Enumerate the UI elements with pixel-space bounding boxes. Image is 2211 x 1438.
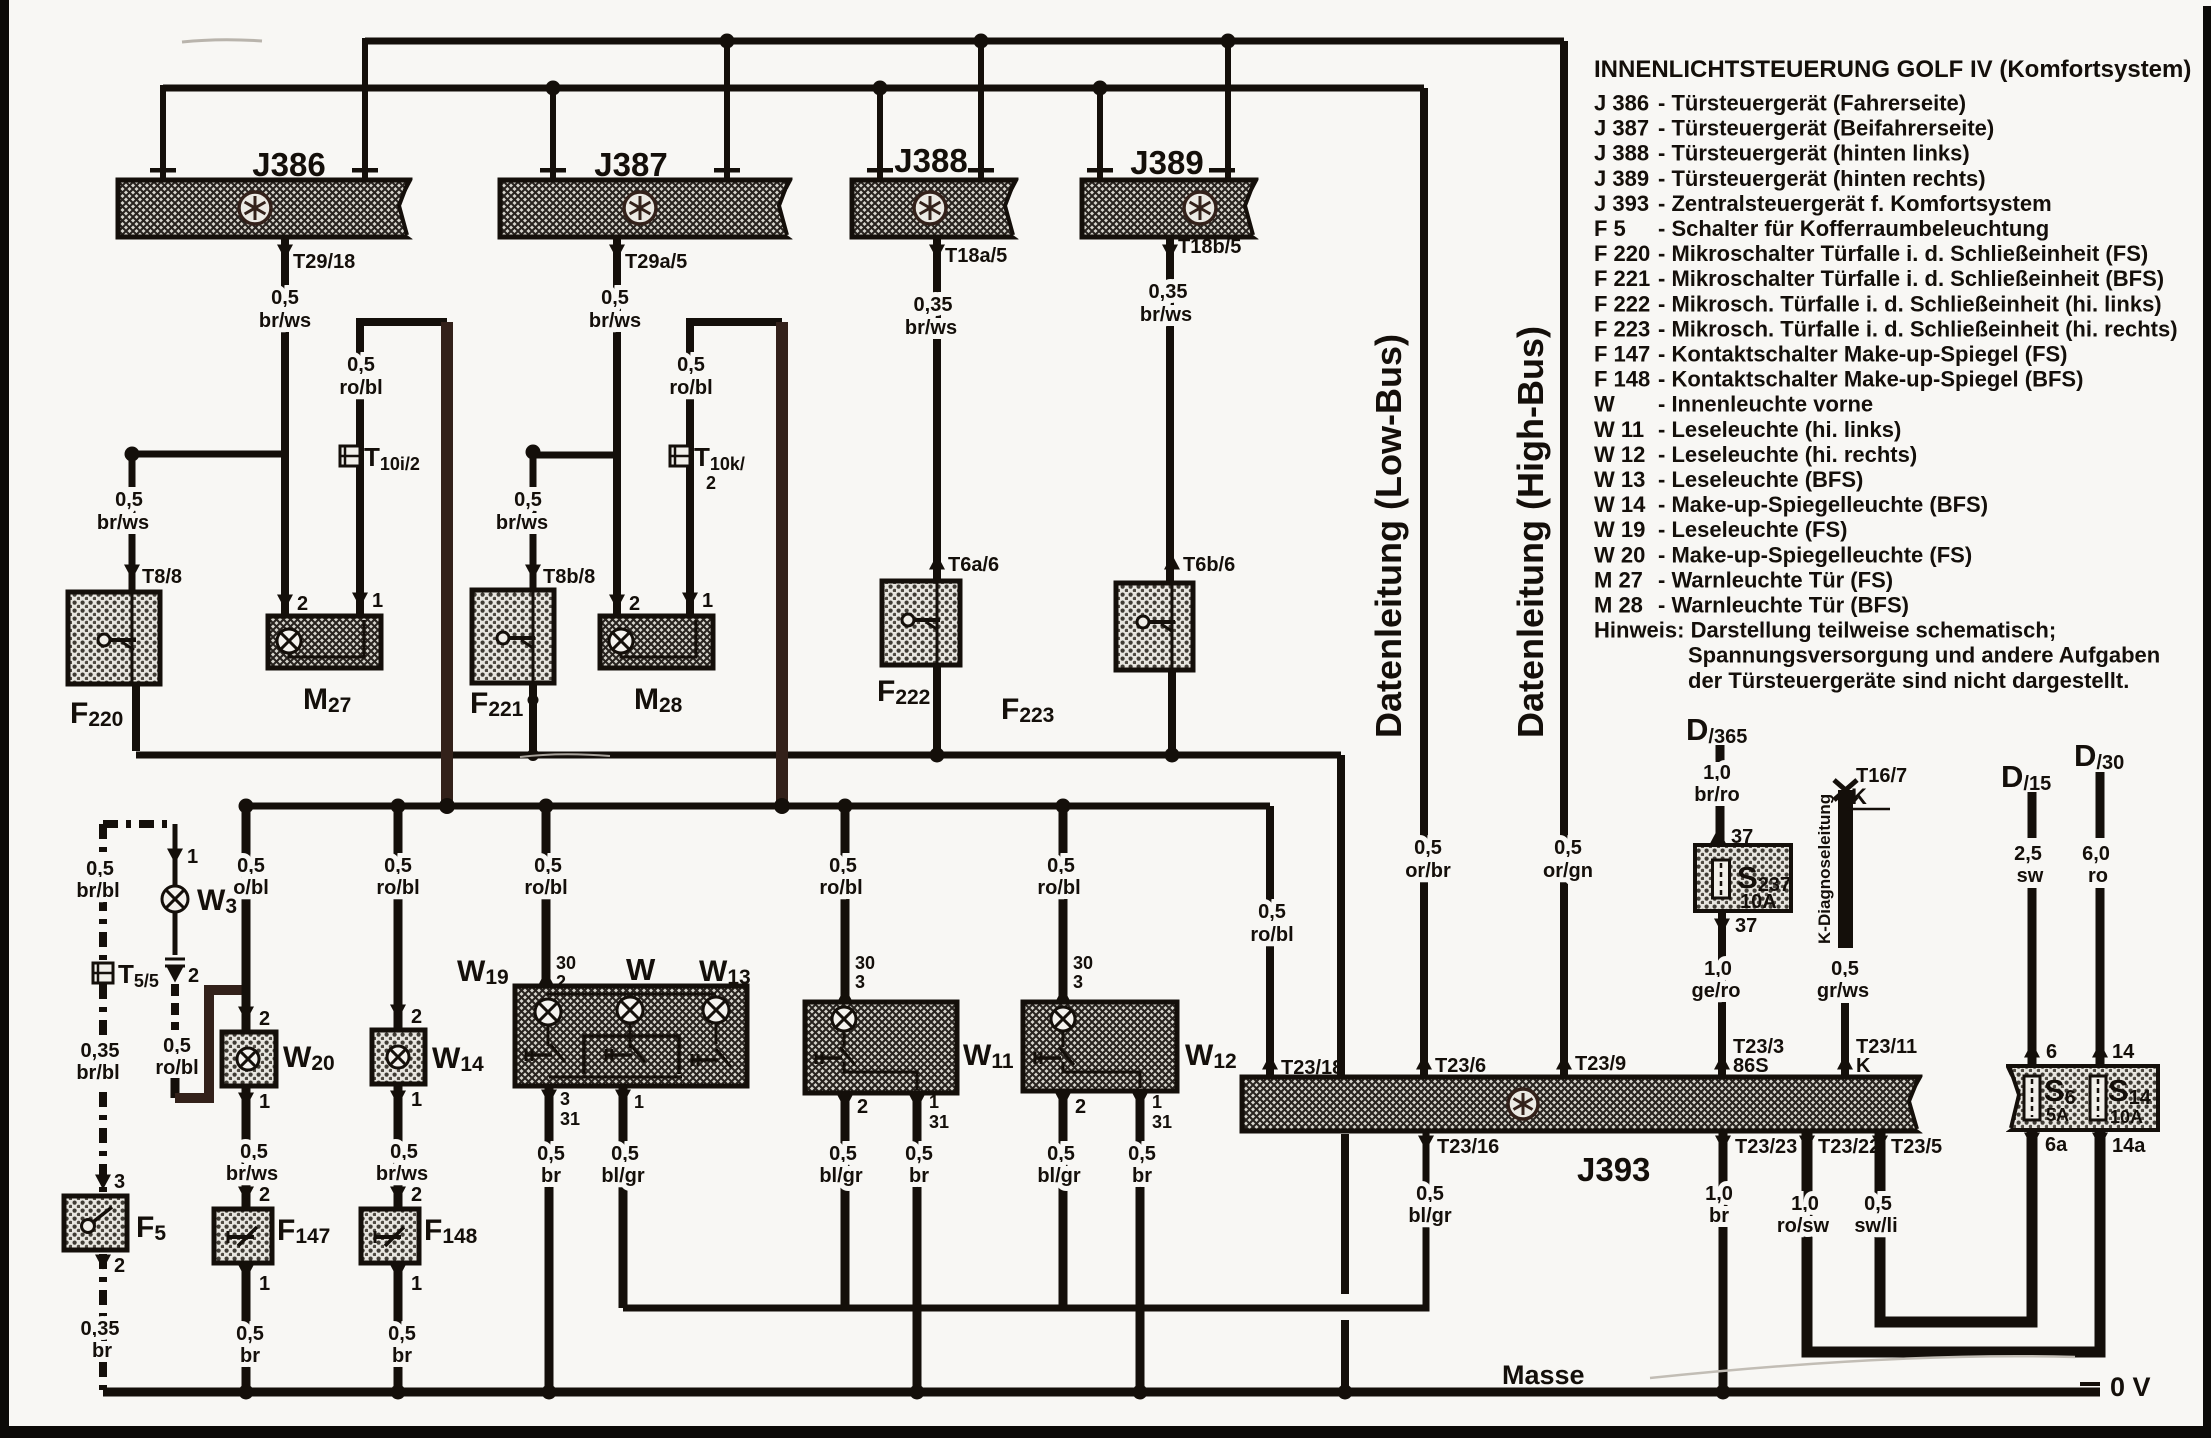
svg-text:0,5: 0,5: [115, 489, 143, 511]
arrow at pin 14a: [2092, 1133, 2108, 1148]
wire: D/30 to fuse S14: [2096, 888, 2105, 1066]
switch symbol in F5: [82, 1207, 113, 1233]
wire: K-Diagnoseleitung bar: [1838, 790, 1853, 948]
lamp symbol in W12: [1051, 1007, 1075, 1031]
arrow at F5 pin 2: [95, 1255, 111, 1270]
arrow at F147 pin 1: [238, 1265, 254, 1280]
svg-text:W 20: W 20: [1594, 542, 1645, 567]
arrow at pin T23/3: [1714, 1055, 1730, 1070]
svg-text:K: K: [1856, 1055, 1871, 1077]
arrow at pin T23/23: [1715, 1136, 1731, 1151]
svg-text:ro/bl: ro/bl: [339, 377, 382, 399]
svg-text:14: 14: [2112, 1041, 2135, 1063]
svg-text:ro/bl: ro/bl: [524, 877, 567, 899]
svg-text:T6a/6: T6a/6: [948, 554, 999, 576]
svg-text:T23/23: T23/23: [1735, 1136, 1797, 1158]
wire: W12 pin31 to ground: [1136, 1091, 1145, 1392]
svg-text:0,5: 0,5: [1414, 837, 1442, 859]
arrow at pin T18a/5: [929, 245, 945, 260]
svg-text:F 223: F 223: [1594, 316, 1650, 341]
wire: W11 feed: [841, 806, 850, 1002]
wire: bus A drop to J388 pin: [978, 41, 984, 178]
svg-text:0,5: 0,5: [390, 1141, 418, 1163]
svg-text:F 221: F 221: [1594, 266, 1650, 291]
svg-text:0,5: 0,5: [1047, 1143, 1075, 1165]
svg-text:2: 2: [259, 1008, 270, 1030]
svg-text:bl/gr: bl/gr: [819, 1165, 863, 1187]
stem under W13 lamp: [715, 1023, 718, 1044]
connector X at T16/7: [1834, 780, 1857, 800]
svg-text:W: W: [626, 952, 656, 987]
switch symbol in F148: [375, 1227, 404, 1246]
wire: W20 feed: [242, 806, 251, 1032]
svg-text:30: 30: [556, 953, 576, 973]
arrow at pin T29/18: [277, 245, 293, 260]
svg-text:br/ws: br/ws: [496, 512, 548, 534]
svg-text:br: br: [909, 1165, 929, 1187]
wire: D/15 to fuse S6: [2028, 888, 2037, 1066]
wire: W14 feed: [394, 806, 403, 1030]
svg-text:T6b/6: T6b/6: [1183, 554, 1235, 576]
door controller J388: [852, 177, 1020, 240]
wire: F148 to ground: [394, 1263, 403, 1392]
svg-text:ro/bl: ro/bl: [819, 877, 862, 899]
wire: W12 pin2 to link: [1059, 1091, 1068, 1308]
svg-text:bl/gr: bl/gr: [1408, 1205, 1452, 1227]
wire: W20 to F147: [242, 1086, 251, 1209]
inner frame around middle switch: [584, 1036, 679, 1074]
svg-text:br: br: [392, 1345, 412, 1367]
svg-text:2: 2: [706, 473, 716, 493]
wire: S237 to J393 T23/3: [1718, 911, 1726, 1077]
connector symbol T10k/2: [670, 446, 690, 466]
switch symbol in W12: [1035, 1047, 1074, 1065]
svg-text:T23/18: T23/18: [1281, 1057, 1343, 1079]
svg-text:1: 1: [187, 846, 198, 868]
svg-text:T29/18: T29/18: [293, 251, 355, 273]
microswitch F222: [882, 581, 960, 665]
wire: F5 trunk dashed middle: [99, 984, 107, 1192]
fuse S237: [1695, 845, 1791, 911]
svg-text:br/ro: br/ro: [1694, 784, 1740, 806]
svg-text:2: 2: [297, 593, 308, 615]
arrow at W11 pin 1: [909, 1095, 925, 1110]
svg-text:INNENLICHTSTEUERUNG GOLF IV (K: INNENLICHTSTEUERUNG GOLF IV (Komfortsyst…: [1594, 56, 2191, 83]
svg-text:J388: J388: [894, 142, 967, 179]
svg-text:86S: 86S: [1733, 1055, 1769, 1077]
node: ground / F147: [239, 1385, 254, 1400]
door controller J387: [500, 177, 794, 240]
svg-text:T23/5: T23/5: [1891, 1136, 1942, 1158]
arrow at pin T23/16: [1418, 1136, 1434, 1151]
svg-text:ro/bl: ro/bl: [155, 1057, 198, 1079]
node: bus B / J387 junction: [546, 81, 561, 96]
wire T29a/5 from J387: [613, 237, 621, 616]
wire through F221: [532, 592, 535, 683]
scan artifact top-left: [182, 40, 262, 42]
arrow at fuse pin 14: [2092, 1043, 2108, 1058]
wire: J393 ground lead upper: [1341, 1134, 1349, 1294]
svg-text:1: 1: [702, 590, 713, 612]
arrow at W20 pin 2: [238, 1007, 254, 1022]
svg-text:0,35: 0,35: [1149, 281, 1188, 303]
svg-text:- Kontaktschalter Make-up-Spie: - Kontaktschalter Make-up-Spiegel (BFS): [1658, 367, 2083, 392]
svg-text:6: 6: [2046, 1041, 2057, 1063]
svg-text:W: W: [1594, 392, 1615, 417]
lamp symbol in W11: [832, 1007, 856, 1031]
wire: bus A drop to J389 pin: [1225, 41, 1231, 178]
wire: D/365 to fuse: [1716, 806, 1725, 845]
wire M27 pin1 / T10i jog: [360, 322, 447, 620]
svg-text:br/ws: br/ws: [226, 1163, 278, 1185]
relay symbol in J393: [1508, 1089, 1538, 1119]
wire: bus A drop to J386 pin: [362, 38, 368, 178]
wire: F5 trunk dashed lower: [99, 1254, 107, 1392]
arrow at pin T23/18: [1262, 1055, 1278, 1070]
svg-text:0,5: 0,5: [347, 354, 375, 376]
svg-text:0,5: 0,5: [534, 855, 562, 877]
svg-text:1: 1: [411, 1089, 422, 1111]
svg-text:T29a/5: T29a/5: [625, 251, 687, 273]
wire: W3 feed: [173, 824, 178, 885]
wire: D/15 stub: [2028, 792, 2037, 838]
wire branch to F221: [533, 455, 617, 590]
node: ground / F148: [391, 1385, 406, 1400]
lamp symbol W19 in unit: [535, 999, 561, 1025]
svg-text:ro/bl: ro/bl: [669, 377, 712, 399]
svg-text:br: br: [92, 1340, 112, 1362]
svg-text:Masse: Masse: [1502, 1360, 1585, 1390]
svg-text:F 220: F 220: [1594, 241, 1650, 266]
svg-text:1: 1: [259, 1273, 270, 1295]
relay symbol in J387: [624, 192, 656, 224]
svg-text:2: 2: [1075, 1096, 1086, 1118]
svg-text:J 388: J 388: [1594, 141, 1649, 166]
svg-text:3: 3: [114, 1171, 125, 1193]
svg-text:2,5: 2,5: [2014, 843, 2042, 865]
scan artifact mid: [520, 754, 610, 757]
svg-text:- Schalter für Kofferraumbeleu: - Schalter für Kofferraumbeleuchtung: [1658, 216, 2049, 241]
node: F223 on switch bus: [1165, 748, 1180, 763]
node: F221 on switch bus: [527, 749, 539, 761]
arrow at pin T8b/8: [525, 565, 541, 580]
svg-text:o/bl: o/bl: [233, 877, 269, 899]
microswitch F223: [1116, 583, 1193, 670]
lamp symbol in W20: [237, 1048, 259, 1070]
svg-text:1: 1: [929, 1092, 939, 1112]
svg-text:der Türsteuergeräte sind nicht: der Türsteuergeräte sind nicht dargestel…: [1688, 668, 2129, 693]
svg-text:0,5: 0,5: [86, 858, 114, 880]
svg-text:W 11: W 11: [1594, 417, 1644, 442]
fuse symbol in S237: [1713, 860, 1730, 898]
wire F220 to switch bus: [132, 684, 140, 751]
svg-text:ro/bl: ro/bl: [376, 877, 419, 899]
svg-text:0,5: 0,5: [1554, 837, 1582, 859]
wire: bus B drop to J388 pin: [877, 88, 883, 178]
arrow at pin T23/5: [1872, 1136, 1888, 1151]
wire: J393 ground lead lower: [1341, 1320, 1349, 1392]
wire: W11 pin2 to link: [841, 1093, 850, 1308]
wire: lamp feed drop left: [441, 322, 453, 806]
svg-text:0 V: 0 V: [2110, 1372, 2151, 1402]
svg-text:0,5: 0,5: [240, 1141, 268, 1163]
inner wiring W12: [1063, 1031, 1140, 1088]
svg-text:T18b/5: T18b/5: [1178, 236, 1241, 258]
wire: W3 hook to W20 node: [175, 990, 246, 1098]
wire: top supply bus A: [365, 38, 1564, 45]
node: lamp bus / W11: [838, 799, 853, 814]
svg-text:0,5: 0,5: [1128, 1143, 1156, 1165]
svg-text:1: 1: [634, 1092, 644, 1112]
svg-text:- Leseleuchte (BFS): - Leseleuchte (BFS): [1658, 467, 1863, 492]
svg-text:- Make-up-Spiegelleuchte (FS): - Make-up-Spiegelleuchte (FS): [1658, 542, 1972, 567]
arrow at M27 pin 2: [277, 595, 293, 610]
svg-text:0,5: 0,5: [1864, 1193, 1892, 1215]
node: lamp bus / W12: [1056, 799, 1071, 814]
svg-text:- Leseleuchte (hi. rechts): - Leseleuchte (hi. rechts): [1658, 442, 1917, 467]
svg-text:F 222: F 222: [1594, 291, 1650, 316]
node: bus A / J387 junction: [720, 34, 735, 49]
svg-text:br/ws: br/ws: [1140, 304, 1192, 326]
svg-text:br/bl: br/bl: [76, 880, 119, 902]
svg-text:T23/9: T23/9: [1575, 1053, 1626, 1075]
lamp symbol in W14: [387, 1046, 409, 1068]
svg-text:0,35: 0,35: [914, 294, 953, 316]
svg-text:T18a/5: T18a/5: [945, 245, 1007, 267]
svg-text:0,5: 0,5: [1416, 1183, 1444, 1205]
svg-text:2: 2: [629, 593, 640, 615]
svg-text:sw/li: sw/li: [1854, 1215, 1897, 1237]
pin ticks on door controller inputs: [150, 168, 1235, 173]
svg-text:0,5: 0,5: [611, 1143, 639, 1165]
svg-text:F 5: F 5: [1594, 216, 1626, 241]
wire: W11 pin31 to ground: [913, 1093, 922, 1392]
svg-text:1,0: 1,0: [1703, 762, 1731, 784]
microswitch F221: [472, 590, 554, 683]
underline of K: [1847, 808, 1890, 811]
node: bus B / J388 junction: [873, 81, 888, 96]
svg-text:- Leseleuchte (hi. links): - Leseleuchte (hi. links): [1658, 417, 1901, 442]
svg-text:- Make-up-Spiegelleuchte (BFS): - Make-up-Spiegelleuchte (BFS): [1658, 492, 1988, 517]
wire M28 pin1 / T10k jog: [690, 322, 782, 620]
wire T18a/5 from J388: [933, 237, 941, 581]
wire: D/365 stub: [1716, 745, 1725, 762]
arrow at W3 pin 1: [167, 849, 183, 864]
svg-text:W 14: W 14: [1594, 492, 1646, 517]
svg-text:2: 2: [188, 965, 199, 987]
switch symbol in F221: [497, 632, 535, 648]
svg-text:br: br: [1709, 1205, 1729, 1227]
svg-text:gr/ws: gr/ws: [1817, 980, 1869, 1002]
node: lamp bus / W19: [539, 799, 554, 814]
fuse box S6/S14: [2004, 1063, 2158, 1133]
svg-text:- Mikrosch. Türfalle i. d. Sch: - Mikrosch. Türfalle i. d. Schließeinhei…: [1658, 316, 2178, 341]
svg-text:or/br: or/br: [1405, 860, 1451, 882]
svg-text:W 19: W 19: [1594, 517, 1645, 542]
arrow at fuse pin 37 bottom: [1714, 919, 1730, 934]
switch symbol right in W unit: [692, 1049, 731, 1067]
svg-text:6a: 6a: [2045, 1134, 2068, 1156]
switch symbol in W11: [816, 1047, 855, 1065]
svg-text:10A: 10A: [1740, 891, 1777, 913]
connector symbol T5/5: [93, 963, 113, 983]
svg-text:ge/ro: ge/ro: [1692, 980, 1741, 1002]
wire: F5 trunk dashed upper: [99, 824, 107, 962]
node: ground / J393: [1338, 1385, 1353, 1400]
arrow at F148 pin 1: [390, 1265, 406, 1280]
wire: K line to J393 T23/11: [1841, 1003, 1849, 1077]
svg-text:2: 2: [411, 1184, 422, 1206]
svg-text:br: br: [1132, 1165, 1152, 1187]
node: lamp bus / W20: [239, 799, 254, 814]
svg-text:T8/8: T8/8: [142, 566, 182, 588]
svg-text:- Türsteuergerät (hinten recht: - Türsteuergerät (hinten rechts): [1658, 166, 1986, 191]
wire: lamp supply bus: [246, 803, 1270, 810]
arrow at M28 pin 1: [682, 593, 698, 608]
arrow at pin T23/22: [1799, 1136, 1815, 1151]
svg-text:Datenleitung (High-Bus): Datenleitung (High-Bus): [1510, 326, 1551, 738]
svg-text:0,35: 0,35: [81, 1318, 120, 1340]
svg-text:30: 30: [855, 953, 875, 973]
svg-text:sw: sw: [2017, 865, 2044, 887]
wire: bus B drop to J386 pin: [160, 85, 166, 178]
wire through F220: [131, 594, 134, 684]
svg-text:1: 1: [411, 1273, 422, 1295]
svg-text:1,0: 1,0: [1704, 958, 1732, 980]
svg-text:br/ws: br/ws: [97, 512, 149, 534]
wire T29/18 from J386: [281, 237, 289, 616]
svg-text:- Mikroschalter Türfalle i. d.: - Mikroschalter Türfalle i. d. Schließei…: [1658, 266, 2164, 291]
central control unit J393: [1242, 1074, 1924, 1134]
arrow at pin T29a/5: [609, 245, 625, 260]
wire: lamp bus drop to J393 T23/18: [1266, 806, 1274, 1077]
svg-text:- Kontaktschalter Make-up-Spie: - Kontaktschalter Make-up-Spiegel (FS): [1658, 342, 2068, 367]
wire: Datenleitung Low-Bus: [1420, 88, 1428, 1077]
reading light W12: [1023, 1002, 1177, 1091]
svg-text:or/gn: or/gn: [1543, 860, 1593, 882]
reading light W11: [805, 1002, 957, 1093]
wire: lamp feed drop right: [776, 322, 788, 806]
arrow at pin T23/9: [1556, 1055, 1572, 1070]
wire T18b/5 from J389: [1166, 237, 1174, 583]
node: ground / T23/23: [1716, 1385, 1731, 1400]
svg-text:3: 3: [855, 972, 865, 992]
svg-text:W 12: W 12: [1594, 442, 1645, 467]
inner wiring W11: [844, 1031, 917, 1090]
wire: T23/22 to fuse 14a: [1807, 1131, 2100, 1352]
svg-text:K: K: [1851, 784, 1867, 809]
svg-text:- Leseleuchte (FS): - Leseleuchte (FS): [1658, 517, 1847, 542]
svg-text:0,5: 0,5: [384, 855, 412, 877]
svg-text:T8b/8: T8b/8: [543, 566, 595, 588]
svg-text:31: 31: [560, 1109, 580, 1129]
svg-text:br/bl: br/bl: [76, 1062, 119, 1084]
switch symbol middle in W unit: [606, 1044, 645, 1062]
wire: bl/gr link to T23/16: [623, 1131, 1426, 1308]
wire through F223: [1171, 585, 1174, 670]
svg-text:bl/gr: bl/gr: [1037, 1165, 1081, 1187]
arrow at W12 pin 30: [1055, 988, 1071, 1003]
svg-text:- Mikrosch. Türfalle i. d. Sch: - Mikrosch. Türfalle i. d. Schließeinhei…: [1658, 291, 2162, 316]
wire: W pin3 to ground: [545, 1086, 554, 1392]
wire: F147 to ground: [242, 1263, 251, 1392]
wire: F5 trunk dashed horizontal: [103, 820, 175, 828]
connector symbol T10i/2: [340, 446, 360, 466]
svg-text:J 386: J 386: [1594, 91, 1649, 116]
arrow at F147 pin 2: [238, 1187, 254, 1202]
svg-text:br/ws: br/ws: [259, 310, 311, 332]
svg-text:0,5: 0,5: [1258, 901, 1286, 923]
make-up mirror lamp W20: [222, 1032, 276, 1086]
wire F221 to switch bus: [529, 683, 537, 755]
svg-text:- Mikroschalter Türfalle i. d.: - Mikroschalter Türfalle i. d. Schließei…: [1658, 241, 2148, 266]
svg-text:T23/22: T23/22: [1818, 1136, 1880, 1158]
arrow at pin 6a: [2024, 1133, 2040, 1148]
svg-text:0,5: 0,5: [1047, 855, 1075, 877]
node: ground / W11: [910, 1385, 925, 1400]
node: bus B / J389 junction: [1093, 81, 1108, 96]
svg-text:1,0: 1,0: [1791, 1193, 1819, 1215]
switch symbol in F220: [98, 634, 136, 650]
svg-text:6,0: 6,0: [2082, 843, 2110, 865]
svg-text:- Zentralsteuergerät f. Komfor: - Zentralsteuergerät f. Komfortsystem: [1658, 191, 2052, 216]
arrow at pin T23/6: [1416, 1055, 1432, 1070]
relay symbol in J388: [914, 192, 946, 224]
arrow at W14 pin 2: [390, 1005, 406, 1020]
svg-text:37: 37: [1735, 915, 1757, 937]
arrow at W pin 1: [615, 1090, 631, 1105]
arrow at W14 pin 1: [390, 1091, 406, 1106]
svg-text:3: 3: [1073, 972, 1083, 992]
inner wiring M27: [289, 620, 364, 657]
svg-text:0,5: 0,5: [271, 287, 299, 309]
stem under W19 lamp: [547, 1025, 550, 1046]
filament symbol under W3: [165, 959, 185, 966]
svg-text:5A: 5A: [2046, 1105, 2069, 1125]
door warning lamp M28: [600, 616, 713, 668]
arrow at W12 pin 1: [1132, 1093, 1148, 1108]
svg-text:M 28: M 28: [1594, 593, 1643, 618]
arrow at fuse pin 6: [2024, 1043, 2040, 1058]
wire: T23/5 to fuse 6a: [1880, 1131, 2032, 1322]
relay symbol in J389: [1184, 192, 1216, 224]
svg-text:0,5: 0,5: [163, 1035, 191, 1057]
make-up mirror lamp W14: [372, 1030, 425, 1084]
relay symbol in J386: [239, 192, 271, 224]
svg-text:J 393: J 393: [1594, 191, 1649, 216]
svg-text:T23/6: T23/6: [1435, 1055, 1486, 1077]
svg-text:2: 2: [259, 1184, 270, 1206]
inner bottom bus of W unit: [549, 1076, 682, 1079]
svg-text:0,5: 0,5: [829, 1143, 857, 1165]
svg-text:ro: ro: [2088, 865, 2108, 887]
arrow at W11 pin 30: [837, 988, 853, 1003]
boot light switch F5: [64, 1196, 127, 1250]
wire: W19 feed: [542, 806, 551, 986]
microswitch F220: [68, 592, 160, 684]
wire: W3 pin2 dashed: [171, 984, 179, 1030]
wire: bus B drop to J389 pin: [1097, 88, 1103, 178]
arrow at W20 pin 1: [238, 1093, 254, 1108]
svg-text:- Warnleuchte Tür (FS): - Warnleuchte Tür (FS): [1658, 567, 1893, 592]
svg-text:J 387: J 387: [1594, 116, 1649, 141]
svg-text:W 13: W 13: [1594, 467, 1645, 492]
wire: W pin1 to T23/16 link: [619, 1086, 628, 1308]
fuse symbol S6: [2024, 1076, 2040, 1120]
svg-text:0,5: 0,5: [514, 489, 542, 511]
svg-text:F 147: F 147: [1594, 342, 1650, 367]
arrow at W pin 30: [538, 971, 554, 986]
